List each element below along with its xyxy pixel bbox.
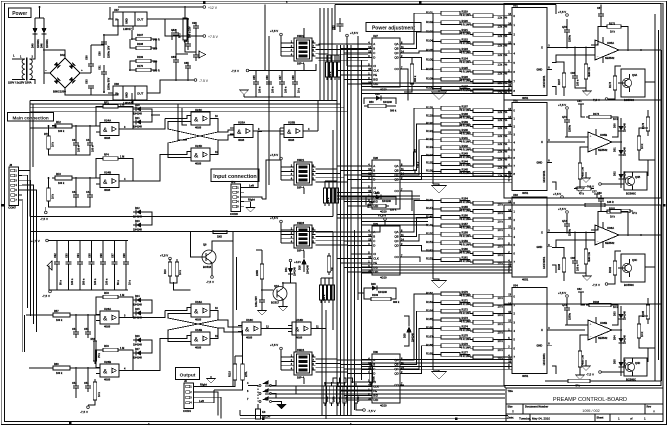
svg-text:R106: R106 (426, 58, 433, 62)
wire output right label (197, 386, 214, 388)
wire U38 adj network (131, 93, 133, 104)
resistor RF2 100k (55, 124, 72, 128)
resistor R184 4k99 vertical sec4 (578, 351, 582, 367)
svg-text:C97: C97 (111, 253, 114, 258)
svg-text:CO: CO (394, 67, 399, 71)
svg-text:RF9: RF9 (104, 345, 109, 348)
svg-text:D31: D31 (614, 147, 617, 152)
svg-text:QA: QA (394, 164, 398, 168)
wire U38 out to -7.5V (152, 80, 194, 93)
svg-text:CO: CO (394, 255, 399, 259)
capacitor C88 100n sec3 (574, 257, 576, 261)
svg-text:C65: C65 (253, 75, 256, 80)
svg-text:4093: 4093 (104, 136, 111, 140)
svg-text:100k: 100k (339, 396, 342, 402)
wire sec3 lower (615, 251, 621, 258)
svg-text:C82: C82 (171, 29, 176, 32)
resistor RF3 100k (55, 176, 72, 180)
svg-text:U30: U30 (373, 350, 378, 354)
resistor R82 100k vertical (334, 62, 337, 77)
svg-text:R102: R102 (426, 20, 433, 24)
section label Main connection (8, 113, 54, 121)
resistor R50 390k under counter (368, 104, 386, 107)
terminal +7.5V counter1 (346, 34, 349, 37)
svg-text:C83: C83 (171, 56, 176, 59)
svg-text:QC: QC (394, 51, 398, 55)
wire diodes to rail (35, 17, 44, 19)
svg-text:DIP-4: DIP-4 (297, 248, 305, 252)
terminal +7.5V counter3 (384, 218, 387, 221)
svg-text:R124: R124 (462, 56, 469, 60)
svg-text:R141: R141 (462, 136, 469, 140)
svg-text:X: X (541, 231, 543, 235)
svg-text:R134: R134 (426, 153, 433, 157)
resistor R87 100k vertical (336, 188, 339, 203)
svg-text:R119: R119 (462, 9, 469, 13)
terminal -7.5V lower mid (363, 409, 366, 412)
ground open cap bank lower (47, 261, 52, 270)
capacitor C93 10 u (292, 71, 301, 98)
wire upper cap bank to rail (300, 64, 316, 71)
wire R108 link (404, 58, 412, 62)
svg-text:1N4148: 1N4148 (624, 123, 627, 132)
svg-text:-7,5 V: -7,5 V (40, 217, 48, 221)
svg-text:100 k: 100 k (58, 130, 65, 133)
svg-text:C80: C80 (99, 51, 102, 56)
resistor R71 10k vertical (47, 136, 51, 149)
svg-text:1N4148: 1N4148 (133, 113, 142, 116)
svg-text:Q10: Q10 (274, 284, 279, 288)
svg-text:CI: CI (373, 186, 376, 190)
svg-text:Title: Title (508, 389, 514, 393)
capacitor bank upper rails (249, 70, 300, 72)
svg-text:D: D (373, 56, 375, 60)
svg-text:-7.5 V: -7.5 V (199, 79, 209, 83)
svg-text:1N4148: 1N4148 (383, 101, 392, 104)
svg-text:CLK: CLK (373, 69, 379, 73)
svg-text:R182: R182 (609, 266, 612, 273)
svg-text:BC517: BC517 (271, 300, 280, 304)
svg-text:4093: 4093 (288, 138, 295, 142)
counter U29 4029 (372, 226, 400, 275)
svg-text:100 k: 100 k (56, 372, 63, 375)
bus vertical group A (320, 8, 332, 101)
border zone tick right (663, 204, 665, 206)
border zone tick bottom-3 (455, 418, 457, 420)
svg-text:R139: R139 (462, 120, 469, 124)
counter U28 4029 (372, 160, 400, 209)
svg-text:R150: R150 (426, 231, 433, 235)
svg-text:4051: 4051 (522, 277, 529, 281)
svg-text:R161: R161 (462, 256, 469, 260)
section outline box 4 (504, 304, 661, 386)
capacitor C52 100n (75, 382, 77, 386)
svg-text:QA: QA (394, 358, 398, 362)
capacitor C73 2200u (566, 304, 568, 308)
svg-text:-7,5 V: -7,5 V (231, 69, 239, 73)
section outline box 3 (504, 205, 661, 304)
diode D21 1N4148 (136, 120, 141, 125)
wire sec1 lower (615, 66, 621, 73)
svg-text:BC516: BC516 (203, 265, 212, 269)
svg-text:D30: D30 (614, 123, 617, 128)
wire Q10 base node (261, 279, 263, 293)
wire JP2 to select gates (258, 132, 262, 186)
diode D33 sec4 (619, 314, 624, 319)
resistor R170 390R (136, 68, 151, 71)
capacitor C51 100n (75, 328, 77, 332)
wire sec4 bottom run (545, 380, 565, 382)
svg-text:R175: R175 (462, 333, 469, 337)
svg-text:R168: R168 (137, 43, 144, 46)
counter U27 4029 (372, 38, 400, 87)
svg-text:C92: C92 (54, 253, 57, 258)
svg-text:PE: PE (373, 73, 377, 77)
svg-text:R126: R126 (462, 75, 469, 79)
diode D25 1N4148 (136, 311, 141, 316)
svg-text:C96: C96 (100, 253, 103, 258)
capacitor C93 100 n (65, 241, 74, 291)
ground ladder C (432, 281, 447, 289)
resistor R108 390k vertical (410, 64, 414, 84)
wire counter2 CO (404, 191, 412, 211)
ground open sec2 (582, 178, 591, 183)
wire SW21 left pins (281, 171, 291, 180)
svg-text:R155: R155 (462, 205, 469, 209)
wire SW23 cluster joins (321, 278, 333, 282)
diode D19 under counter U27 (376, 96, 381, 101)
wire R121 top (261, 250, 263, 261)
svg-text:QD: QD (394, 56, 398, 60)
svg-text:&: & (194, 117, 199, 123)
wire long vertical x265 (264, 5, 266, 71)
svg-text:R163: R163 (426, 300, 433, 304)
resistor RF4 1M (103, 157, 118, 160)
svg-text:GND: GND (537, 245, 543, 249)
svg-text:D: D (373, 372, 375, 376)
resistor R172 10k sec1 (607, 25, 621, 29)
wire latch outputs to U25A (218, 130, 234, 132)
cross coupling wires upper latch (165, 116, 191, 119)
svg-text:+7,5 V: +7,5 V (558, 103, 566, 107)
svg-text:CI: CI (373, 64, 376, 68)
svg-text:CO: CO (394, 383, 399, 387)
svg-text:C: C (373, 51, 375, 55)
wire bus left drop (29, 101, 31, 168)
svg-text:+7,5 V: +7,5 V (270, 216, 278, 220)
svg-text:R140: R140 (462, 128, 469, 132)
svg-text:Main connection: Main connection (12, 115, 48, 120)
terminal -7.5V sec3 (605, 283, 608, 286)
dip switch SW21 (294, 162, 312, 185)
svg-text:47 k: 47 k (575, 385, 580, 388)
wire U26B output (123, 370, 133, 372)
svg-text:Power adjustment: Power adjustment (372, 25, 415, 31)
connector CON5 output (184, 383, 194, 409)
svg-text:U26A: U26A (104, 307, 111, 311)
svg-text:&: & (287, 130, 292, 136)
svg-text:+7,5 V: +7,5 V (270, 29, 278, 33)
terminal +12V (203, 6, 206, 9)
nand gate U16A (191, 304, 210, 317)
svg-text:Power: Power (12, 11, 27, 17)
svg-text:RF8: RF8 (104, 292, 109, 295)
svg-text:R73: R73 (179, 33, 182, 38)
svg-text:C89: C89 (597, 192, 602, 195)
svg-text:U36A: U36A (607, 226, 614, 230)
wire sec1 output (623, 49, 652, 51)
resistor R92 220k mid (368, 204, 386, 207)
svg-text:D29: D29 (403, 333, 406, 338)
wire select line vertical x236 (236, 257, 238, 310)
svg-text:R183: R183 (593, 301, 600, 304)
svg-text:IN: IN (115, 92, 118, 96)
svg-text:R167: R167 (558, 78, 561, 85)
svg-text:CLK: CLK (373, 385, 379, 389)
title block (506, 388, 663, 421)
connector J8 CON7 (9, 167, 19, 205)
svg-text:R153: R153 (426, 257, 433, 261)
wire U37 adj network (132, 30, 133, 39)
terminal +7.5V sec1 (566, 14, 569, 17)
resistor R61 10k vertical (93, 382, 97, 400)
resistor R152 100k vertical (336, 386, 340, 403)
svg-text:D23: D23 (135, 220, 140, 223)
svg-text:+7,5 V: +7,5 V (378, 213, 386, 217)
svg-text:R57: R57 (54, 310, 59, 313)
svg-text:R120: R120 (462, 19, 469, 23)
svg-text:C85: C85 (184, 62, 189, 65)
svg-text:&: & (237, 130, 242, 136)
svg-text:10 k: 10 k (52, 194, 55, 199)
svg-text:RF4: RF4 (104, 154, 109, 157)
capacitor C84 10u (187, 40, 189, 44)
svg-text:X: X (541, 140, 543, 144)
resistor R93 100k vertical (332, 285, 335, 300)
svg-text:1N4148: 1N4148 (133, 304, 142, 307)
capacitor C82b sec4 (577, 288, 584, 296)
wire +7.5V distribution (176, 39, 188, 54)
svg-text:2200u: 2200u (569, 34, 572, 42)
ground ladder D (432, 372, 447, 380)
nand gate U24D (191, 148, 210, 161)
svg-text:1N4148: 1N4148 (133, 229, 142, 232)
svg-text:RF3: RF3 (56, 173, 61, 176)
border zone tick top-left (203, 2, 205, 4)
resistor R180 4k99 vertical (584, 249, 588, 264)
wire sec2 out (647, 110, 649, 114)
svg-text:100 n: 100 n (78, 145, 81, 152)
transistor Q4A box BC550C (618, 69, 645, 102)
svg-text:OUT: OUT (137, 92, 144, 96)
wire positive dc rail (91, 19, 118, 45)
svg-text:R121: R121 (462, 28, 469, 32)
op-amp U35B (588, 132, 612, 152)
wire negative dc rail (91, 93, 118, 95)
svg-text:Input connection: Input connection (213, 174, 256, 180)
svg-text:100 n: 100 n (577, 79, 580, 86)
wire sec1 out to rail (645, 50, 655, 82)
diode D28 1N4148 (372, 286, 377, 291)
capacitor C62 top (333, 18, 344, 32)
svg-text:PE: PE (373, 389, 377, 393)
terminal +7.5V SW24 (280, 347, 283, 350)
svg-text:1 M: 1 M (120, 294, 124, 297)
svg-text:R162: R162 (426, 291, 433, 295)
nand gate U25B (284, 125, 303, 138)
diode D27 1N4148 (136, 351, 141, 356)
wire sw24 area link (295, 386, 297, 394)
bus vertical group C (358, 36, 362, 380)
resistor R10 1k vertical (168, 262, 172, 276)
wire latch upper inputs from bus (178, 104, 187, 140)
svg-text:Q4C: Q4C (632, 259, 637, 262)
resistor R167 240R (136, 37, 151, 40)
svg-text:B/D: B/D (373, 394, 378, 398)
resistor R103 1M vertical (327, 256, 331, 272)
svg-text:150 k: 150 k (417, 161, 420, 168)
svg-text:CI: CI (373, 252, 376, 256)
svg-text:100 n: 100 n (577, 264, 580, 271)
svg-text:1N4148: 1N4148 (133, 216, 142, 219)
svg-text:U24D: U24D (195, 144, 202, 148)
diode D20b 1N4148 mid (376, 195, 381, 200)
svg-text:C86: C86 (571, 72, 576, 75)
resistor R109 390k (371, 297, 391, 300)
svg-text:10 k: 10 k (52, 142, 55, 147)
wire U16C to U16D (265, 328, 292, 330)
wire select line vertical x233 (232, 241, 234, 386)
svg-text:50 n: 50 n (60, 280, 63, 285)
wire bottom bus to relay (257, 418, 259, 420)
svg-text:+7,5 V: +7,5 V (558, 291, 566, 295)
wire sec4 diode chain (620, 323, 622, 334)
terminal +7.5V SW22 (280, 33, 283, 36)
resistor R119 22k vertical (241, 364, 245, 380)
resistor R178b 47k sec2 (577, 187, 591, 190)
svg-text:390 k: 390 k (390, 110, 397, 113)
svg-text:R170: R170 (137, 65, 144, 68)
capacitor C92 100 n (279, 71, 288, 98)
section label Power adjustment (366, 23, 421, 32)
resistor R168 vertical sec3 (562, 258, 566, 272)
resistor R169 3k9 (136, 59, 151, 62)
svg-text:R176: R176 (462, 342, 469, 346)
svg-text:1 M: 1 M (120, 156, 124, 159)
wire q9 collector to bus (232, 232, 234, 242)
svg-text:R145: R145 (462, 168, 469, 172)
wire output wires (214, 383, 235, 387)
svg-text:R157: R157 (462, 222, 469, 226)
svg-text:R142: R142 (462, 144, 469, 148)
svg-text:SW22: SW22 (297, 34, 305, 38)
terminal -7.5V sec2 (599, 183, 602, 186)
svg-text:100k: 100k (346, 396, 349, 402)
svg-text:D46: D46 (40, 43, 43, 48)
transistor Q10 BC517 (271, 283, 287, 306)
ground open Q10 emitter (279, 307, 288, 312)
wire mux bottom stubs (552, 87, 556, 96)
wire SW23 right pins to bus (316, 232, 348, 245)
svg-text:U31: U31 (513, 4, 518, 8)
svg-text:Rev: Rev (647, 406, 652, 409)
svg-text:U24B: U24B (104, 170, 111, 174)
svg-text:U24A: U24A (104, 118, 111, 122)
capacitor C70 2200u (566, 26, 568, 30)
wire counter 1 input bundle (337, 44, 368, 84)
svg-text:100 k: 100 k (56, 319, 63, 322)
svg-text:D40: D40 (31, 43, 34, 48)
bus horizontal mid (337, 196, 420, 199)
relay coil K3 (256, 404, 271, 419)
svg-text:U/D: U/D (373, 270, 378, 274)
svg-text:4093: 4093 (195, 345, 202, 349)
svg-text:QC: QC (394, 367, 398, 371)
wire Q9 loop (191, 232, 211, 257)
svg-text:GND: GND (537, 161, 543, 165)
svg-text:100k: 100k (373, 376, 376, 382)
svg-text:D35: D35 (614, 359, 617, 364)
svg-text:2200u: 2200u (569, 312, 572, 320)
svg-text:X: X (541, 328, 543, 332)
wire counter1 CO chain (404, 69, 408, 101)
svg-text:U38: U38 (114, 82, 119, 86)
section outline box 2 (504, 100, 661, 198)
capacitor C90 (195, 22, 197, 26)
wire U25B out to counter bus (317, 101, 319, 132)
svg-text:B/D: B/D (373, 266, 378, 270)
svg-text:R128: R128 (426, 105, 433, 109)
svg-text:C68: C68 (292, 75, 295, 80)
diode D29 1N4148 vertical (403, 322, 414, 342)
wire SW22 left pins (281, 47, 291, 56)
svg-text:D21: D21 (135, 117, 140, 120)
svg-text:C90: C90 (192, 22, 197, 25)
terminal +7.5V mid-right (561, 196, 564, 199)
svg-text:Date:: Date: (508, 416, 514, 419)
resistor R60 100k (53, 366, 70, 370)
svg-text:R172: R172 (609, 22, 616, 25)
bus horizontal lower (265, 386, 505, 398)
capacitor C90 100 n (253, 71, 262, 98)
svg-text:100 k: 100 k (327, 197, 330, 204)
svg-text:+7,5 V: +7,5 V (270, 153, 278, 157)
capacitor C94 200 n (77, 241, 86, 291)
svg-text:&: & (103, 180, 108, 186)
svg-text:133 R: 133 R (607, 201, 614, 204)
svg-text:C: C (373, 367, 375, 371)
wire dip22 bottom stub (303, 64, 305, 70)
bus wires upper middle (30, 101, 348, 112)
svg-text:D28: D28 (371, 283, 376, 286)
svg-text:C87: C87 (597, 7, 602, 10)
svg-text:4051: 4051 (522, 191, 529, 195)
svg-text:R50: R50 (369, 101, 374, 104)
svg-text:R108: R108 (426, 76, 433, 80)
svg-text:2200u 16V: 2200u 16V (108, 45, 111, 58)
svg-text:10 k: 10 k (610, 31, 615, 34)
svg-text:D26: D26 (135, 335, 140, 338)
resistor R72 10k vertical (47, 188, 51, 201)
svg-text:4093: 4093 (195, 125, 202, 129)
diode D26 1N4148 (136, 338, 141, 343)
svg-text:D33: D33 (614, 311, 617, 316)
svg-text:C55: C55 (84, 328, 89, 331)
svg-text:10 u: 10 u (129, 280, 132, 285)
svg-text:JP2: JP2 (231, 181, 236, 184)
svg-text:−: − (597, 240, 599, 244)
svg-text:C73: C73 (562, 304, 567, 307)
